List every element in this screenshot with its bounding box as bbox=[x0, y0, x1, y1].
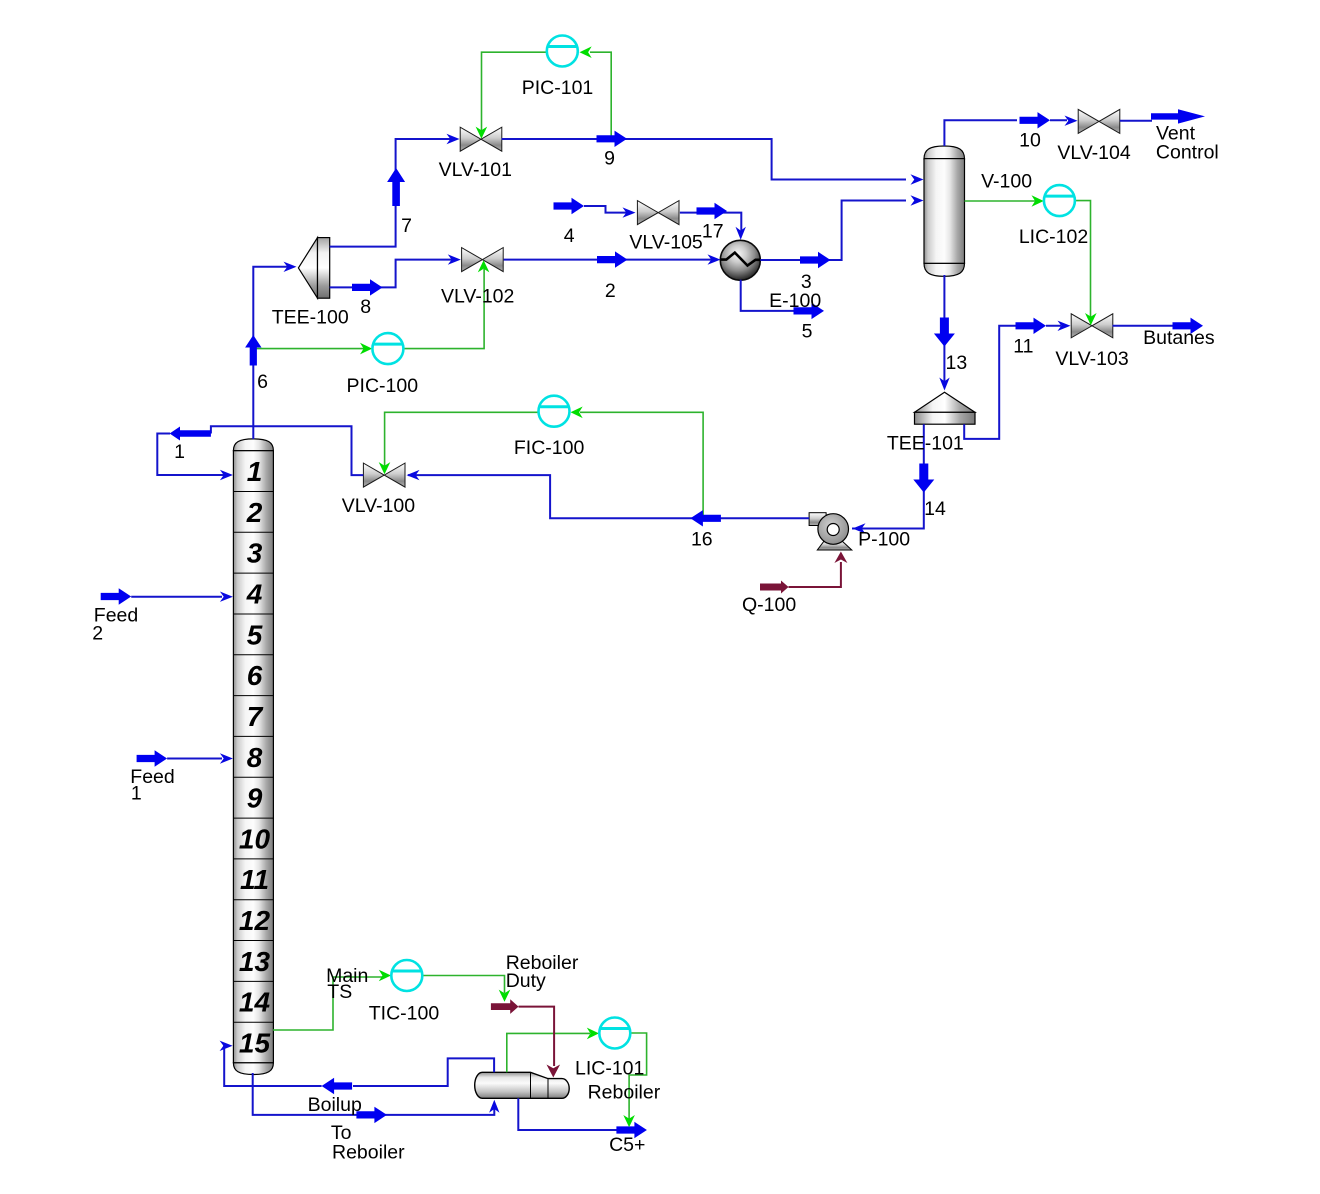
thick stream arrow 1 pointing left bbox=[170, 427, 211, 441]
arrowhead green onto VLV-100 bbox=[379, 462, 391, 474]
wire vent control outlet after VLV-104 bbox=[1120, 120, 1152, 122]
controller PIC-101 bbox=[547, 36, 578, 67]
wire stream 16 P-100 to VLV-100 bbox=[408, 475, 809, 518]
thick stream arrow 16 pointing left bbox=[690, 510, 721, 526]
column tray divider lines bbox=[233, 492, 273, 1023]
thick energy arrow reboiler duty bbox=[491, 999, 519, 1014]
thick energy arrow Q-100 bbox=[760, 581, 789, 594]
controller LIC-102 bbox=[1044, 185, 1075, 216]
svg-text:VLV-104: VLV-104 bbox=[1057, 142, 1131, 164]
controller TIC-100 bbox=[391, 960, 422, 991]
svg-text:Q-100: Q-100 bbox=[742, 594, 796, 616]
svg-text:17: 17 bbox=[702, 221, 724, 243]
energy wire reboiler duty to reboiler bbox=[519, 1007, 555, 1066]
svg-text:10: 10 bbox=[239, 823, 271, 854]
arrowhead green into LIC-101 bbox=[587, 1028, 599, 1040]
svg-text:14: 14 bbox=[239, 987, 271, 1018]
valve VLV-105 bbox=[637, 201, 679, 225]
svg-text:6: 6 bbox=[257, 371, 268, 393]
wire stream 3 E-100 to V-100 bbox=[760, 201, 906, 261]
svg-text:13: 13 bbox=[946, 352, 968, 374]
arrowhead into E-100 left bbox=[708, 254, 721, 264]
arrowhead green onto reboiler duty stream bbox=[499, 990, 511, 1002]
valve VLV-100 bbox=[363, 463, 405, 487]
svg-text:PIC-100: PIC-100 bbox=[347, 375, 419, 397]
arrowhead into VLV-105 bbox=[623, 207, 636, 217]
thick stream arrow 6 pointing up bbox=[245, 335, 261, 366]
arrowhead green onto VLV-103 bbox=[1085, 313, 1097, 325]
vessel V-100 bbox=[924, 146, 965, 276]
valve VLV-104 bbox=[1078, 109, 1120, 133]
energy wire Q-100 to pump bbox=[789, 562, 841, 587]
svg-text:9: 9 bbox=[247, 783, 263, 814]
svg-text:8: 8 bbox=[360, 296, 371, 318]
svg-text:VLV-103: VLV-103 bbox=[1055, 348, 1128, 370]
thick stream arrow 17 bbox=[697, 203, 728, 219]
svg-text:11: 11 bbox=[1013, 336, 1033, 358]
svg-text:1: 1 bbox=[247, 456, 263, 487]
svg-text:VLV-105: VLV-105 bbox=[629, 232, 703, 254]
svg-text:2: 2 bbox=[92, 623, 103, 645]
svg-text:16: 16 bbox=[691, 529, 713, 551]
svg-text:12: 12 bbox=[239, 905, 271, 936]
thick stream arrow 10 bbox=[1020, 112, 1051, 128]
arrowhead green into FIC-100 bbox=[571, 407, 583, 419]
svg-text:5: 5 bbox=[247, 619, 263, 650]
wire stream 4 inlet to VLV-105 bbox=[584, 206, 628, 213]
wire stream 7 TEE-100 to VLV-101 bbox=[330, 139, 451, 247]
svg-text:4: 4 bbox=[564, 225, 575, 247]
valve VLV-101 bbox=[460, 127, 502, 151]
column tray numbers 1-15 bbox=[239, 456, 271, 1059]
svg-text:Control: Control bbox=[1156, 142, 1219, 164]
svg-text:FIC-100: FIC-100 bbox=[514, 437, 585, 459]
svg-text:1: 1 bbox=[131, 783, 142, 805]
arrowhead green onto VLV-102 bbox=[478, 260, 490, 272]
arrowhead into TEE-101 apex bbox=[939, 378, 949, 391]
svg-text:V-100: V-100 bbox=[981, 171, 1032, 193]
thick stream arrow 11 bbox=[1016, 318, 1047, 334]
thick stream arrow 3 bbox=[800, 252, 831, 268]
arrowhead maroon onto P-100 base bbox=[834, 552, 847, 564]
svg-text:4: 4 bbox=[246, 579, 263, 610]
thick stream arrow feed 2 bbox=[101, 588, 132, 604]
wire feed 2 to tray 4 bbox=[131, 596, 222, 598]
svg-text:PIC-101: PIC-101 bbox=[522, 77, 594, 99]
arrowhead into P-100 bbox=[853, 523, 866, 533]
controller FIC-100 bbox=[539, 396, 570, 427]
svg-text:VLV-101: VLV-101 bbox=[439, 159, 512, 181]
svg-text:3: 3 bbox=[801, 271, 812, 293]
svg-text:14: 14 bbox=[924, 498, 946, 520]
svg-text:Duty: Duty bbox=[506, 970, 546, 992]
wire stream 11 TEE-101 to VLV-103 bbox=[964, 326, 1061, 439]
thick stream arrow feed 1 bbox=[137, 750, 168, 766]
thick stream arrow 13 pointing down bbox=[934, 318, 955, 347]
svg-text:9: 9 bbox=[604, 148, 615, 170]
thick stream arrow 5 bbox=[794, 303, 825, 319]
thick stream arrow 14 pointing down bbox=[913, 464, 934, 493]
wire butanes outlet after VLV-103 bbox=[1113, 325, 1175, 327]
wire stream 9 VLV-101 to V-100 bbox=[502, 139, 907, 180]
thick stream arrow vent control outlet bbox=[1151, 109, 1205, 123]
pump P-100 bbox=[809, 513, 852, 550]
valve VLV-103 bbox=[1071, 314, 1113, 338]
svg-text:5: 5 bbox=[802, 321, 813, 343]
signal wire tray15 to TIC-100 and TIC-100 to reboiler duty bbox=[273, 977, 382, 1030]
reboiler neck separator lines bbox=[531, 1072, 549, 1098]
svg-text:LIC-101: LIC-101 bbox=[575, 1058, 644, 1080]
arrowhead into V-100 upper inlet bbox=[911, 174, 924, 184]
wire C5+ reboiler bottoms outlet bbox=[518, 1098, 618, 1130]
thick stream arrow 8 bbox=[352, 279, 383, 295]
svg-text:2: 2 bbox=[246, 497, 263, 528]
arrowhead into VLV-102 bbox=[448, 254, 461, 264]
svg-text:7: 7 bbox=[247, 701, 264, 732]
arrowhead green into PIC-100 bbox=[360, 343, 372, 355]
signal wire reboiler to LIC-101 and LIC-101 to C5+ bbox=[507, 1033, 590, 1072]
heat exchanger E-100 bbox=[720, 240, 760, 280]
arrowhead green onto VLV-101 bbox=[476, 127, 488, 139]
valve VLV-102 bbox=[462, 248, 504, 272]
svg-text:10: 10 bbox=[1019, 130, 1041, 152]
svg-text:VLV-100: VLV-100 bbox=[342, 495, 416, 517]
wire stream 14 TEE-101 to P-100 bbox=[852, 424, 924, 528]
arrowhead into column tray 4 bbox=[220, 592, 233, 602]
wire stream 2 VLV-102 to E-100 bbox=[504, 259, 713, 261]
svg-text:6: 6 bbox=[247, 660, 263, 691]
svg-text:TEE-100: TEE-100 bbox=[272, 306, 349, 328]
thick stream arrow 4 bbox=[554, 198, 585, 214]
signal wire V-100 to LIC-102 and LIC-102 to VLV-103 bbox=[965, 200, 1037, 202]
wire stream 17 VLV-105 to E-100 bbox=[680, 213, 741, 232]
signal wire stream9 to PIC-101 and PIC-101 to VLV-101 bbox=[482, 52, 547, 131]
wire stream 6 column overhead to TEE-100 bbox=[253, 267, 288, 439]
svg-text:2: 2 bbox=[605, 280, 616, 302]
thick stream arrow boilup pointing left bbox=[322, 1078, 353, 1094]
svg-text:3: 3 bbox=[247, 538, 263, 569]
arrowhead into E-100 top bbox=[736, 227, 746, 240]
wire to-reboiler column bottom to reboiler bbox=[253, 1073, 495, 1115]
thick stream arrow 9 bbox=[597, 131, 628, 147]
svg-text:Boilup: Boilup bbox=[308, 1094, 362, 1116]
wire stream 10 V-100 top to VLV-104 bbox=[944, 120, 1067, 146]
signal wire stream6 to PIC-100 and PIC-100 to VLV-102 bbox=[253, 348, 364, 350]
thick stream arrow C5+ bbox=[616, 1122, 647, 1138]
arrowhead green into TIC-100 bbox=[379, 970, 391, 982]
thick stream arrow 2 bbox=[597, 251, 628, 267]
arrowhead maroon onto reboiler neck bbox=[547, 1065, 561, 1078]
arrowhead into VLV-101 bbox=[447, 134, 460, 144]
wire stream 5 E-100 bottom outlet bbox=[741, 280, 795, 311]
wire feed 1 to tray 8 bbox=[167, 758, 222, 760]
arrowhead green into LIC-102 bbox=[1032, 195, 1044, 207]
tee TEE-100 bbox=[298, 238, 329, 299]
svg-text:P-100: P-100 bbox=[858, 528, 910, 550]
svg-text:8: 8 bbox=[247, 742, 263, 773]
svg-text:1: 1 bbox=[174, 441, 185, 463]
arrowhead into column tray 8 bbox=[220, 753, 233, 763]
svg-text:TEE-101: TEE-101 bbox=[887, 432, 964, 454]
svg-text:Reboiler: Reboiler bbox=[588, 1082, 661, 1104]
arrowhead green onto C5+ stream bbox=[623, 1115, 635, 1127]
wire stream 1 VLV-100 reflux loop to tray 1 bbox=[157, 426, 363, 475]
arrowhead into TEE-100 bbox=[284, 262, 297, 272]
tee TEE-101 bbox=[915, 392, 976, 424]
controller PIC-100 bbox=[372, 333, 403, 364]
reboiler vessel bbox=[475, 1072, 570, 1098]
controller LIC-101 bbox=[599, 1018, 630, 1049]
svg-text:13: 13 bbox=[239, 946, 271, 977]
svg-text:11: 11 bbox=[240, 864, 269, 895]
svg-text:Reboiler: Reboiler bbox=[332, 1142, 405, 1164]
arrowhead into V-100 lower inlet bbox=[911, 195, 924, 205]
arrowhead into VLV-100 bbox=[407, 470, 420, 480]
column tower T-100 shell bbox=[233, 439, 273, 1075]
svg-text:TIC-100: TIC-100 bbox=[369, 1002, 440, 1024]
arrowhead boilup into column tray 15 bbox=[220, 1041, 233, 1051]
svg-text:E-100: E-100 bbox=[769, 290, 821, 312]
signal wire stream16 to FIC-100 and FIC-100 to VLV-100 bbox=[580, 412, 703, 517]
svg-text:Butanes: Butanes bbox=[1143, 327, 1215, 349]
svg-text:TS: TS bbox=[327, 981, 352, 1003]
thick stream arrow 7 pointing up bbox=[387, 168, 405, 206]
wire stream 13 V-100 bottom to TEE-101 bbox=[943, 275, 945, 383]
svg-text:15: 15 bbox=[239, 1028, 271, 1059]
svg-text:7: 7 bbox=[401, 215, 412, 237]
arrowhead into column tray 1 bbox=[220, 470, 233, 480]
svg-text:VLV-102: VLV-102 bbox=[441, 285, 514, 307]
svg-text:LIC-102: LIC-102 bbox=[1019, 226, 1088, 248]
wire boilup reboiler to column bottom bbox=[224, 1046, 494, 1086]
wire stream 8 TEE-100 to VLV-102 bbox=[330, 260, 452, 288]
arrowhead into VLV-103 bbox=[1058, 321, 1071, 331]
svg-text:C5+: C5+ bbox=[609, 1134, 645, 1156]
arrowhead into reboiler bottom bbox=[489, 1100, 499, 1113]
thick stream arrow to reboiler bbox=[356, 1107, 387, 1123]
arrowhead into VLV-104 bbox=[1065, 116, 1078, 126]
arrowhead green into PIC-101 bbox=[580, 46, 592, 58]
thick stream arrow butanes outlet bbox=[1173, 318, 1204, 334]
